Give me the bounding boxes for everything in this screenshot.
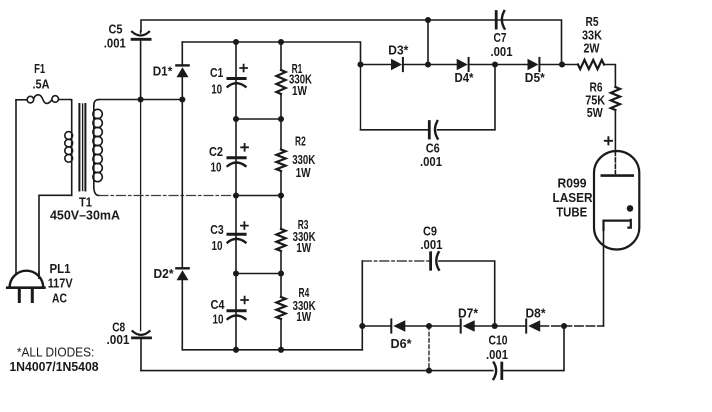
wire top bus [141, 20, 562, 65]
wire cap column [235, 42, 237, 350]
wire C8 to bus [140, 339, 142, 370]
label R5 [582, 14, 603, 56]
svg-text:.001: .001 [107, 332, 130, 347]
label D8 [526, 305, 547, 320]
wire D6 lead [362, 325, 391, 327]
node rail3 C [233, 270, 239, 276]
label C9 [420, 223, 442, 252]
wire rail top [182, 42, 360, 65]
resistor R6 [611, 87, 620, 110]
label C2 [209, 144, 223, 174]
label C3 [210, 222, 223, 253]
wire diode branch top [181, 42, 183, 64]
label R3 [293, 217, 316, 255]
capacitor C5 [132, 31, 150, 39]
svg-text:D4*: D4* [455, 70, 475, 85]
node C9 bottom junction [492, 323, 498, 329]
svg-text:LASER: LASER [553, 190, 594, 205]
resistor R3 [276, 229, 285, 251]
transformer T1 secondary [93, 100, 102, 196]
resistor R2 [276, 150, 285, 172]
wire res column e [280, 319, 282, 350]
svg-text:1W: 1W [296, 240, 312, 255]
wire res column d [280, 251, 282, 297]
svg-text:1W: 1W [292, 83, 308, 98]
svg-text:450V–30mA: 450V–30mA [50, 208, 121, 223]
capacitor C3 [228, 222, 248, 242]
label D1 [153, 63, 173, 78]
label F1 [33, 61, 51, 92]
wire bottom bus [141, 326, 564, 371]
node tube return [561, 323, 567, 329]
node rail top R [278, 39, 284, 45]
laser tube R099 envelope [594, 151, 639, 250]
wire D3-D4 [404, 64, 457, 66]
label R4 [293, 285, 316, 324]
svg-text:F1: F1 [34, 61, 45, 76]
diode D3 [391, 58, 403, 71]
svg-text:D6*: D6* [391, 336, 413, 351]
svg-text:D3*: D3* [388, 42, 409, 57]
node D6 input [359, 323, 365, 329]
node top junction mid [425, 61, 431, 67]
wire D5 out [540, 64, 578, 66]
wire cathode lead [603, 221, 605, 326]
svg-text:D8*: D8* [526, 305, 547, 320]
wire primary bottom [39, 195, 72, 277]
svg-text:.5A: .5A [33, 76, 51, 91]
wire C9 branch [361, 261, 363, 350]
node rail2 R [278, 192, 284, 198]
wire C10 link [428, 326, 430, 371]
label R1 [289, 61, 312, 98]
svg-text:C4: C4 [211, 297, 226, 312]
node bottom bus / D6D7 branch [426, 368, 432, 374]
svg-text:TUBE: TUBE [556, 204, 587, 219]
capacitor C2 [228, 144, 248, 166]
node rail4 C [233, 347, 239, 353]
diode D8 [526, 319, 540, 332]
diode D1 [176, 65, 188, 99]
label C1 [210, 65, 223, 97]
node rail4 R [278, 347, 284, 353]
label C8 [107, 319, 130, 347]
svg-text:D7*: D7* [458, 305, 479, 320]
label D5 [525, 70, 546, 85]
label D2 [154, 266, 175, 281]
svg-text:.001: .001 [420, 237, 442, 252]
svg-text:10: 10 [212, 238, 223, 253]
label R6 [585, 79, 606, 120]
wire secondary bottom lead [99, 195, 236, 197]
wire rail 1 [236, 118, 281, 120]
wire mains left [15, 100, 17, 274]
svg-text:.001: .001 [491, 44, 513, 59]
wire D3 lead [361, 64, 392, 66]
node C6 top junction [492, 61, 498, 67]
svg-text:C1: C1 [210, 65, 223, 80]
wire C6 left [361, 65, 429, 130]
diode D6 [391, 319, 405, 332]
svg-text:*ALL DIODES:: *ALL DIODES: [17, 344, 95, 359]
capacitor C6 [429, 121, 437, 139]
wire junction drop [427, 20, 429, 65]
node secondary top / C5 rail [138, 96, 144, 102]
svg-text:D2*: D2* [154, 266, 175, 281]
svg-text:D1*: D1* [153, 63, 173, 78]
wire R5 to R6 [604, 65, 615, 88]
svg-text:C5: C5 [109, 22, 123, 37]
svg-text:C10: C10 [489, 332, 508, 347]
wire D6-D7 [405, 325, 460, 327]
label C7 [491, 30, 513, 59]
node C10 top junction [426, 323, 432, 329]
node top bus junction [425, 17, 431, 23]
svg-text:10: 10 [211, 81, 222, 96]
plug PL1 [7, 271, 44, 302]
label R2 [292, 133, 315, 180]
svg-text:10: 10 [213, 311, 224, 326]
wire res column c [280, 171, 282, 229]
svg-text:C3: C3 [210, 222, 223, 237]
capacitor C4 [228, 297, 248, 319]
label C5 [104, 22, 126, 51]
node D3 input [357, 61, 363, 67]
wire C6 right [438, 65, 495, 130]
capacitor C1 [228, 65, 247, 87]
node D5 output [559, 61, 565, 67]
transformer T1 core [79, 104, 85, 191]
label diode note [9, 344, 98, 374]
svg-text:R099: R099 [558, 176, 587, 191]
diode D5 [528, 58, 540, 71]
laser tube R099 cathode [604, 220, 631, 230]
label T1 [50, 195, 121, 223]
svg-text:1N4007/1N5408: 1N4007/1N5408 [9, 359, 98, 374]
capacitor C9 [431, 252, 439, 270]
svg-text:10: 10 [211, 159, 222, 174]
node rail1 C [233, 116, 239, 122]
label D3 [388, 42, 409, 57]
wire rail bottom [182, 349, 362, 351]
label C6 [420, 140, 442, 169]
transformer T1 primary [65, 100, 73, 196]
wire D7-D8 [475, 325, 527, 327]
capacitor C10 [494, 363, 502, 380]
wire D8 out [540, 325, 603, 327]
label PL1 [48, 261, 73, 305]
label tube plus [605, 137, 612, 144]
svg-text:1W: 1W [296, 165, 312, 180]
svg-text:.001: .001 [420, 154, 442, 169]
node rail2 C [233, 192, 239, 198]
wire res column a [280, 42, 282, 70]
node rail top C [233, 39, 239, 45]
resistor R5 [578, 60, 604, 69]
svg-text:5W: 5W [587, 105, 604, 120]
diode D4 [457, 58, 469, 71]
svg-text:PL1: PL1 [50, 261, 71, 276]
capacitor C8 [133, 331, 151, 338]
fuse F1 [16, 95, 71, 104]
wire rail 2 [236, 195, 281, 197]
svg-text:R2: R2 [295, 133, 306, 148]
svg-text:2W: 2W [584, 40, 601, 55]
resistor R4 [276, 297, 285, 319]
wire C9 right [439, 261, 495, 326]
wire R6 to tube [614, 110, 616, 152]
label C4 [211, 297, 226, 327]
svg-text:AC: AC [52, 290, 67, 305]
node rail1 R [278, 116, 284, 122]
label D4 [455, 70, 475, 85]
svg-text:C7: C7 [494, 30, 507, 45]
wire res column b [280, 94, 282, 150]
node rail3 R [278, 270, 284, 276]
label D6 [391, 336, 413, 351]
wire secondary top lead [99, 99, 182, 101]
svg-text:117V: 117V [48, 275, 73, 290]
svg-text:D5*: D5* [525, 70, 546, 85]
label laser tube R099 [553, 176, 594, 220]
capacitor C7 [496, 11, 504, 29]
svg-text:1W: 1W [296, 309, 312, 324]
svg-text:.001: .001 [486, 347, 508, 362]
resistor R1 [276, 70, 285, 94]
diode D2 [176, 268, 188, 350]
wire diode branch middle [181, 100, 183, 268]
wire anode lead [614, 152, 616, 174]
label C10 [486, 332, 508, 362]
laser tube R099 anode [602, 174, 633, 177]
svg-text:C2: C2 [209, 144, 223, 159]
wire rail 3 [236, 273, 281, 275]
label D7 [458, 305, 479, 320]
wire C5C8 rail [140, 41, 142, 331]
diode D7 [461, 319, 475, 332]
node secondary top / diode branch [179, 96, 185, 102]
svg-text:.001: .001 [104, 36, 126, 51]
laser tube R099 bore dot [627, 205, 634, 212]
wire D4-D5 [470, 64, 528, 66]
wire C9 left [362, 260, 429, 262]
